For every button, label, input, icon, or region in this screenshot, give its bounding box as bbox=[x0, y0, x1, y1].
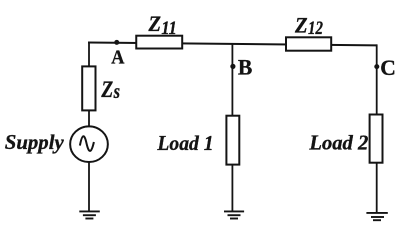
ground (load 2) bbox=[366, 213, 387, 220]
sine wave inside source bbox=[80, 136, 94, 151]
svg-text:Load 1: Load 1 bbox=[156, 131, 213, 155]
ground (load 1) bbox=[224, 211, 244, 218]
node B junction dot bbox=[230, 64, 235, 69]
AC source Supply circle bbox=[70, 126, 108, 162]
wire top bus horizontal from corner above supply to corner above Load 2 bbox=[88, 42, 377, 45]
ground (supply) bbox=[79, 211, 100, 218]
wire branch at node C down to Load 2 bbox=[376, 44, 378, 115]
svg-text:C: C bbox=[380, 55, 396, 80]
svg-text:12: 12 bbox=[308, 19, 323, 39]
load 1 box bbox=[226, 116, 239, 165]
svg-text:Z: Z bbox=[148, 11, 162, 36]
node A junction dot bbox=[114, 40, 119, 45]
wire vertical drop from bus down to Zs bbox=[88, 42, 90, 67]
wire supply to ground bbox=[88, 162, 90, 212]
svg-text:B: B bbox=[238, 54, 252, 79]
load 2 box bbox=[370, 115, 383, 163]
node C junction dot bbox=[374, 64, 379, 69]
impedance Z12 bbox=[286, 37, 331, 50]
impedance Zs bbox=[82, 66, 95, 110]
svg-text:Load 2: Load 2 bbox=[308, 130, 368, 154]
wire branch at node B down to Load 1 bbox=[231, 43, 233, 117]
wire Load 2 to ground bbox=[376, 163, 378, 213]
svg-text:s: s bbox=[113, 81, 120, 103]
svg-text:Z: Z bbox=[101, 77, 114, 103]
svg-text:Supply: Supply bbox=[5, 130, 65, 154]
svg-text:A: A bbox=[111, 47, 125, 69]
svg-text:Z: Z bbox=[294, 13, 308, 38]
wire Zs to supply bbox=[88, 110, 90, 127]
impedance Z11 bbox=[136, 36, 182, 49]
wire Load 1 to ground bbox=[231, 165, 233, 212]
svg-text:11: 11 bbox=[161, 19, 176, 39]
